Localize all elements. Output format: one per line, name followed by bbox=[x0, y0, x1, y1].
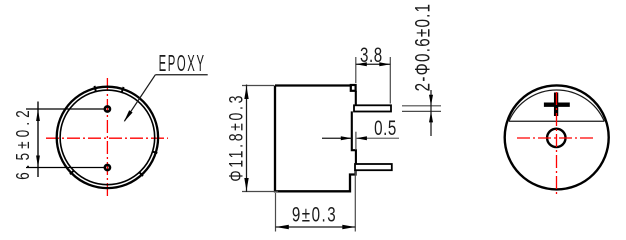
svg-text:6.5±0.2: 6.5±0.2 bbox=[13, 106, 34, 180]
svg-text:Φ11.8±0.3: Φ11.8±0.3 bbox=[225, 93, 247, 182]
svg-text:2-Φ0.6±0.1: 2-Φ0.6±0.1 bbox=[410, 3, 434, 92]
svg-text:0.5: 0.5 bbox=[374, 115, 397, 139]
svg-text:9±0.3: 9±0.3 bbox=[292, 202, 337, 226]
svg-text:3.8: 3.8 bbox=[360, 42, 383, 66]
svg-text:EPOXY: EPOXY bbox=[159, 49, 206, 76]
